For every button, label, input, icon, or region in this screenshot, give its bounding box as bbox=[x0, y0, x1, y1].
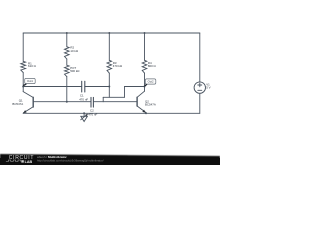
wire POT bottom lead to Q1 base wire bbox=[66, 77, 68, 102]
circuitlab logo bbox=[6, 155, 34, 164]
label R2 value bbox=[70, 46, 78, 53]
label C2 value bbox=[88, 109, 97, 117]
label R1 value bbox=[28, 61, 37, 68]
wire bottom rail bbox=[23, 112, 200, 114]
wire jog y97 R3 bottom bbox=[103, 96, 124, 98]
wire riser x124 to Out2 wire bbox=[124, 87, 126, 98]
wire C2 right to Q2 base bbox=[93, 101, 137, 103]
junction R2 top on V+ rail bbox=[66, 32, 68, 34]
label Q2 bbox=[145, 99, 156, 106]
resistor R3 bbox=[107, 60, 112, 73]
resistor R2 bbox=[65, 47, 70, 59]
watermark bar bbox=[0, 0, 220, 165]
wire R1 top lead bbox=[22, 33, 24, 61]
junction POT bottom on Q1 base wire bbox=[66, 101, 68, 103]
ground arrow head bbox=[85, 114, 88, 117]
node flag Out1 bbox=[23, 78, 36, 86]
label POT value bbox=[70, 66, 80, 73]
wire V1 bottom lead bbox=[199, 93, 201, 113]
wire R4 bottom lead to Out2 node bbox=[144, 73, 146, 86]
label R3 value bbox=[113, 61, 123, 68]
wire R3 top lead bbox=[108, 33, 110, 60]
node Out2 (Q2 collector) bbox=[144, 86, 146, 88]
label V1 value bbox=[206, 83, 210, 90]
transistor Q1 bbox=[23, 92, 33, 114]
junction R3 top on V+ rail bbox=[108, 32, 110, 34]
ground bbox=[81, 113, 88, 121]
wire R3 bottom lead down to y97 jog bbox=[108, 73, 110, 97]
junction R4 top on V+ rail bbox=[144, 32, 146, 34]
resistor R1 bbox=[21, 61, 26, 72]
junction R3 column with C1 wire bbox=[108, 86, 110, 88]
wire R2 to POT bbox=[66, 59, 68, 65]
resistor R4 bbox=[142, 60, 147, 73]
junction ground on bottom rail bbox=[83, 112, 85, 114]
capacitor C2 bbox=[91, 97, 93, 107]
wire y86.5 to Out2 node bbox=[125, 86, 145, 88]
watermark text bbox=[37, 155, 104, 163]
wire Out1 node to C1 left bbox=[23, 86, 81, 88]
wire R4 top lead bbox=[144, 33, 146, 60]
capacitor C1 bbox=[82, 81, 85, 92]
wire Q1 base bbox=[33, 101, 91, 103]
wire C1 right to R3 column bbox=[85, 86, 110, 88]
label R4 value bbox=[148, 61, 157, 68]
wire V1 top lead bbox=[199, 33, 201, 82]
resistor POT bbox=[65, 65, 70, 76]
wire riser x103 bbox=[102, 97, 104, 101]
node Out1 (Q1 collector) bbox=[22, 86, 24, 88]
Q2 emitter arrowhead bbox=[142, 110, 146, 113]
svg-text:http://circuitlab.com/circuit/: http://circuitlab.com/circuit/y3r36amag5… bbox=[37, 159, 104, 163]
node flag Out2 bbox=[144, 79, 156, 87]
svg-text:LAB: LAB bbox=[25, 160, 33, 164]
label C1 value bbox=[79, 93, 88, 101]
wire top rail V+ bbox=[23, 32, 200, 34]
voltage source V1 bbox=[194, 82, 205, 93]
Q1 emitter arrowhead bbox=[23, 110, 26, 113]
label Q1 bbox=[12, 98, 23, 106]
wire R1 bottom lead to Q1 collector bbox=[22, 73, 24, 92]
junction Q2 emitter on bottom rail bbox=[145, 112, 147, 114]
transistor Q2 bbox=[137, 87, 146, 114]
wire R2 top lead bbox=[66, 33, 68, 47]
